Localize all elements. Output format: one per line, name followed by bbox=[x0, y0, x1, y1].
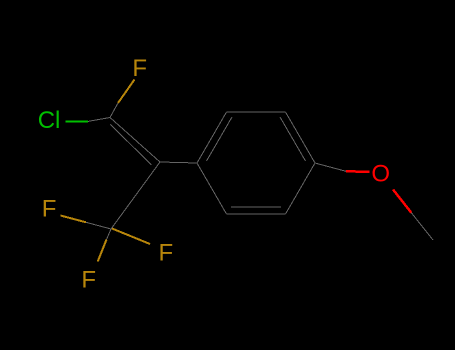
svg-text:O: O bbox=[371, 161, 390, 188]
svg-text:F: F bbox=[81, 266, 96, 293]
svg-text:F: F bbox=[42, 195, 57, 222]
svg-text:Cl: Cl bbox=[38, 107, 61, 134]
svg-text:F: F bbox=[159, 240, 174, 267]
svg-text:F: F bbox=[132, 55, 147, 82]
